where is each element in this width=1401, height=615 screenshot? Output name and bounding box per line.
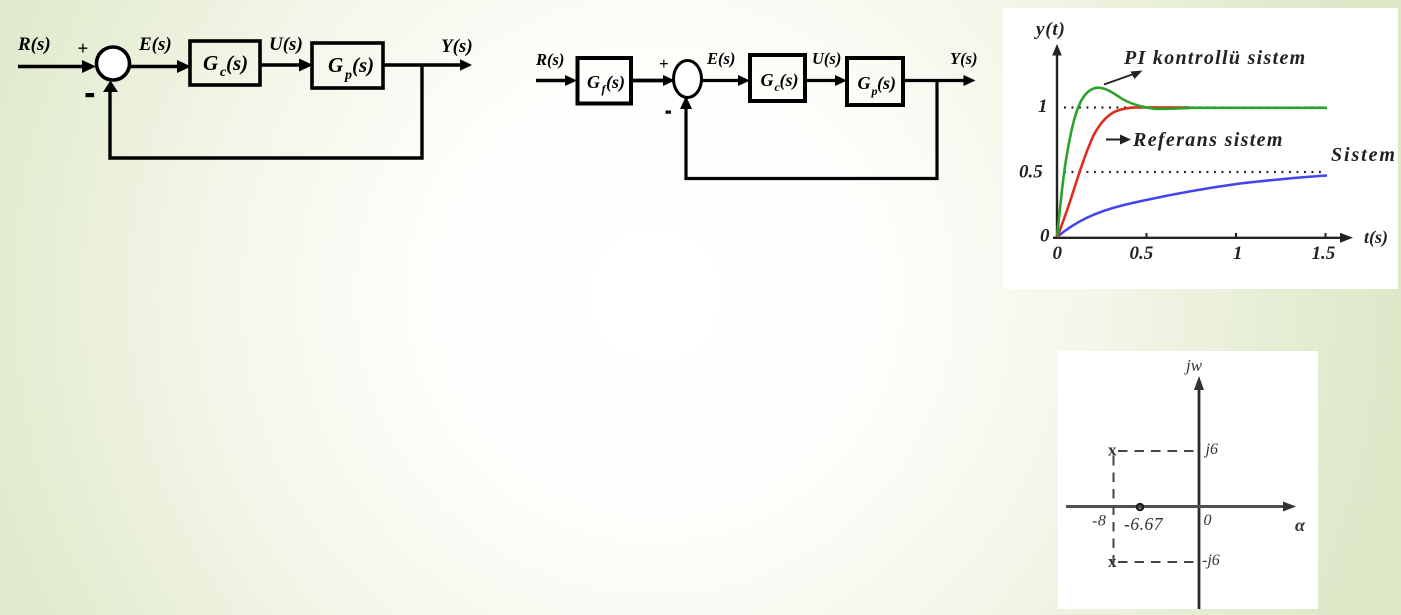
- svg-text:0: 0: [1204, 512, 1212, 529]
- y axis: [1052, 44, 1062, 239]
- svg-text:y(t): y(t): [1034, 19, 1066, 40]
- minus sign diagram 2: [666, 111, 672, 114]
- svg-text:G: G: [858, 73, 871, 93]
- wire feedback loop diagram 2: [680, 81, 937, 179]
- svg-text:jw: jw: [1184, 356, 1203, 375]
- block Gc(s) diagram 2: [750, 55, 805, 101]
- jw axis (vertical): [1194, 376, 1204, 609]
- svg-text:-j6: -j6: [1202, 552, 1220, 569]
- wire Gp(s) to output Y(s): [383, 59, 472, 71]
- x axis tick 0.5: [1146, 233, 1148, 239]
- dashed line vertical: [1113, 456, 1115, 563]
- green curve (PI kontrollu sistem): [1057, 88, 1327, 236]
- svg-text:Y(s): Y(s): [950, 49, 978, 68]
- svg-text:E(s): E(s): [706, 49, 735, 68]
- svg-text:(s): (s): [877, 73, 896, 94]
- zero marker o: [1137, 504, 1143, 510]
- svg-text:+: +: [659, 54, 669, 73]
- annotation Referans sistem with arrow: [1106, 129, 1284, 151]
- svg-text:G: G: [587, 72, 600, 92]
- x axis tick 1: [1235, 233, 1237, 239]
- wire Gc(s) to Gp(s) diagram 2: [805, 75, 847, 86]
- svg-text:(s): (s): [352, 53, 374, 77]
- wire Gf(s) to summing junction 2: [633, 75, 675, 86]
- svg-text:(s): (s): [780, 70, 799, 91]
- x axis: [1053, 233, 1353, 243]
- wire R(s) to Gf(s): [536, 75, 577, 86]
- wire feedback loop diagram 1: [103, 65, 422, 158]
- svg-text:-6.67: -6.67: [1124, 514, 1164, 534]
- dotted reference line at y=1: [1064, 106, 1327, 108]
- wire Gc(s) to Gp(s): [260, 59, 313, 72]
- svg-text:G: G: [328, 53, 343, 77]
- svg-text:-8: -8: [1092, 513, 1106, 530]
- block Gc(s) controller: [190, 41, 260, 85]
- svg-text:0.5: 0.5: [1019, 162, 1043, 183]
- svg-text:U(s): U(s): [269, 34, 303, 55]
- svg-text:1: 1: [1038, 96, 1048, 117]
- wire summing junction to Gc(s): [130, 60, 191, 73]
- svg-text:0: 0: [1040, 226, 1050, 247]
- svg-text:1: 1: [1233, 243, 1243, 264]
- blue curve (uncontrolled system): [1057, 176, 1327, 238]
- svg-text:G: G: [761, 70, 774, 90]
- svg-text:R(s): R(s): [17, 34, 51, 55]
- dashed line lower horizontal: [1118, 561, 1197, 563]
- dotted reference line at y=0.5: [1064, 171, 1322, 173]
- svg-text:+: +: [78, 39, 89, 60]
- svg-text:j6: j6: [1204, 441, 1218, 458]
- svg-text:0: 0: [1053, 243, 1063, 264]
- svg-text:Referans sistem: Referans sistem: [1132, 129, 1284, 151]
- block Gf(s) prefilter: [578, 58, 632, 104]
- svg-text:(s): (s): [606, 72, 625, 93]
- wire R(s) to summing junction: [18, 60, 96, 73]
- svg-text:Y(s): Y(s): [441, 36, 473, 57]
- wire Gp(s) to output Y(s) diagram 2: [903, 75, 976, 86]
- svg-text:p: p: [344, 68, 352, 83]
- svg-text:1.5: 1.5: [1312, 243, 1336, 264]
- svg-text:U(s): U(s): [812, 49, 841, 68]
- wire summing junction 2 to Gc(s): [702, 75, 751, 86]
- annotation arrow to green curve: [1104, 71, 1143, 85]
- svg-text:G: G: [203, 51, 218, 75]
- dashed line upper horizontal: [1118, 450, 1197, 452]
- svg-text:α: α: [1295, 515, 1306, 535]
- summing junction ellipse diagram 2: [674, 61, 702, 98]
- red curve (referans sistem): [1057, 107, 1190, 237]
- svg-text:PI kontrollü sistem: PI kontrollü sistem: [1123, 47, 1307, 69]
- summing junction circle: [97, 47, 130, 80]
- svg-text:Sistem: Sistem: [1331, 144, 1397, 166]
- alpha axis (horizontal): [1066, 502, 1296, 512]
- svg-text:E(s): E(s): [138, 34, 172, 55]
- x axis tick 1.5: [1325, 233, 1327, 239]
- block Gp(s) diagram 2: [847, 58, 903, 105]
- svg-text:R(s): R(s): [535, 50, 564, 69]
- pole-zero panel white background: [1058, 351, 1318, 609]
- svg-text:0.5: 0.5: [1130, 243, 1154, 264]
- chart panel white background: [1003, 8, 1398, 289]
- minus sign diagram 1: [86, 93, 95, 97]
- svg-text:(s): (s): [226, 51, 248, 75]
- svg-text:t(s): t(s): [1364, 227, 1388, 248]
- block Gp(s) plant: [312, 43, 383, 88]
